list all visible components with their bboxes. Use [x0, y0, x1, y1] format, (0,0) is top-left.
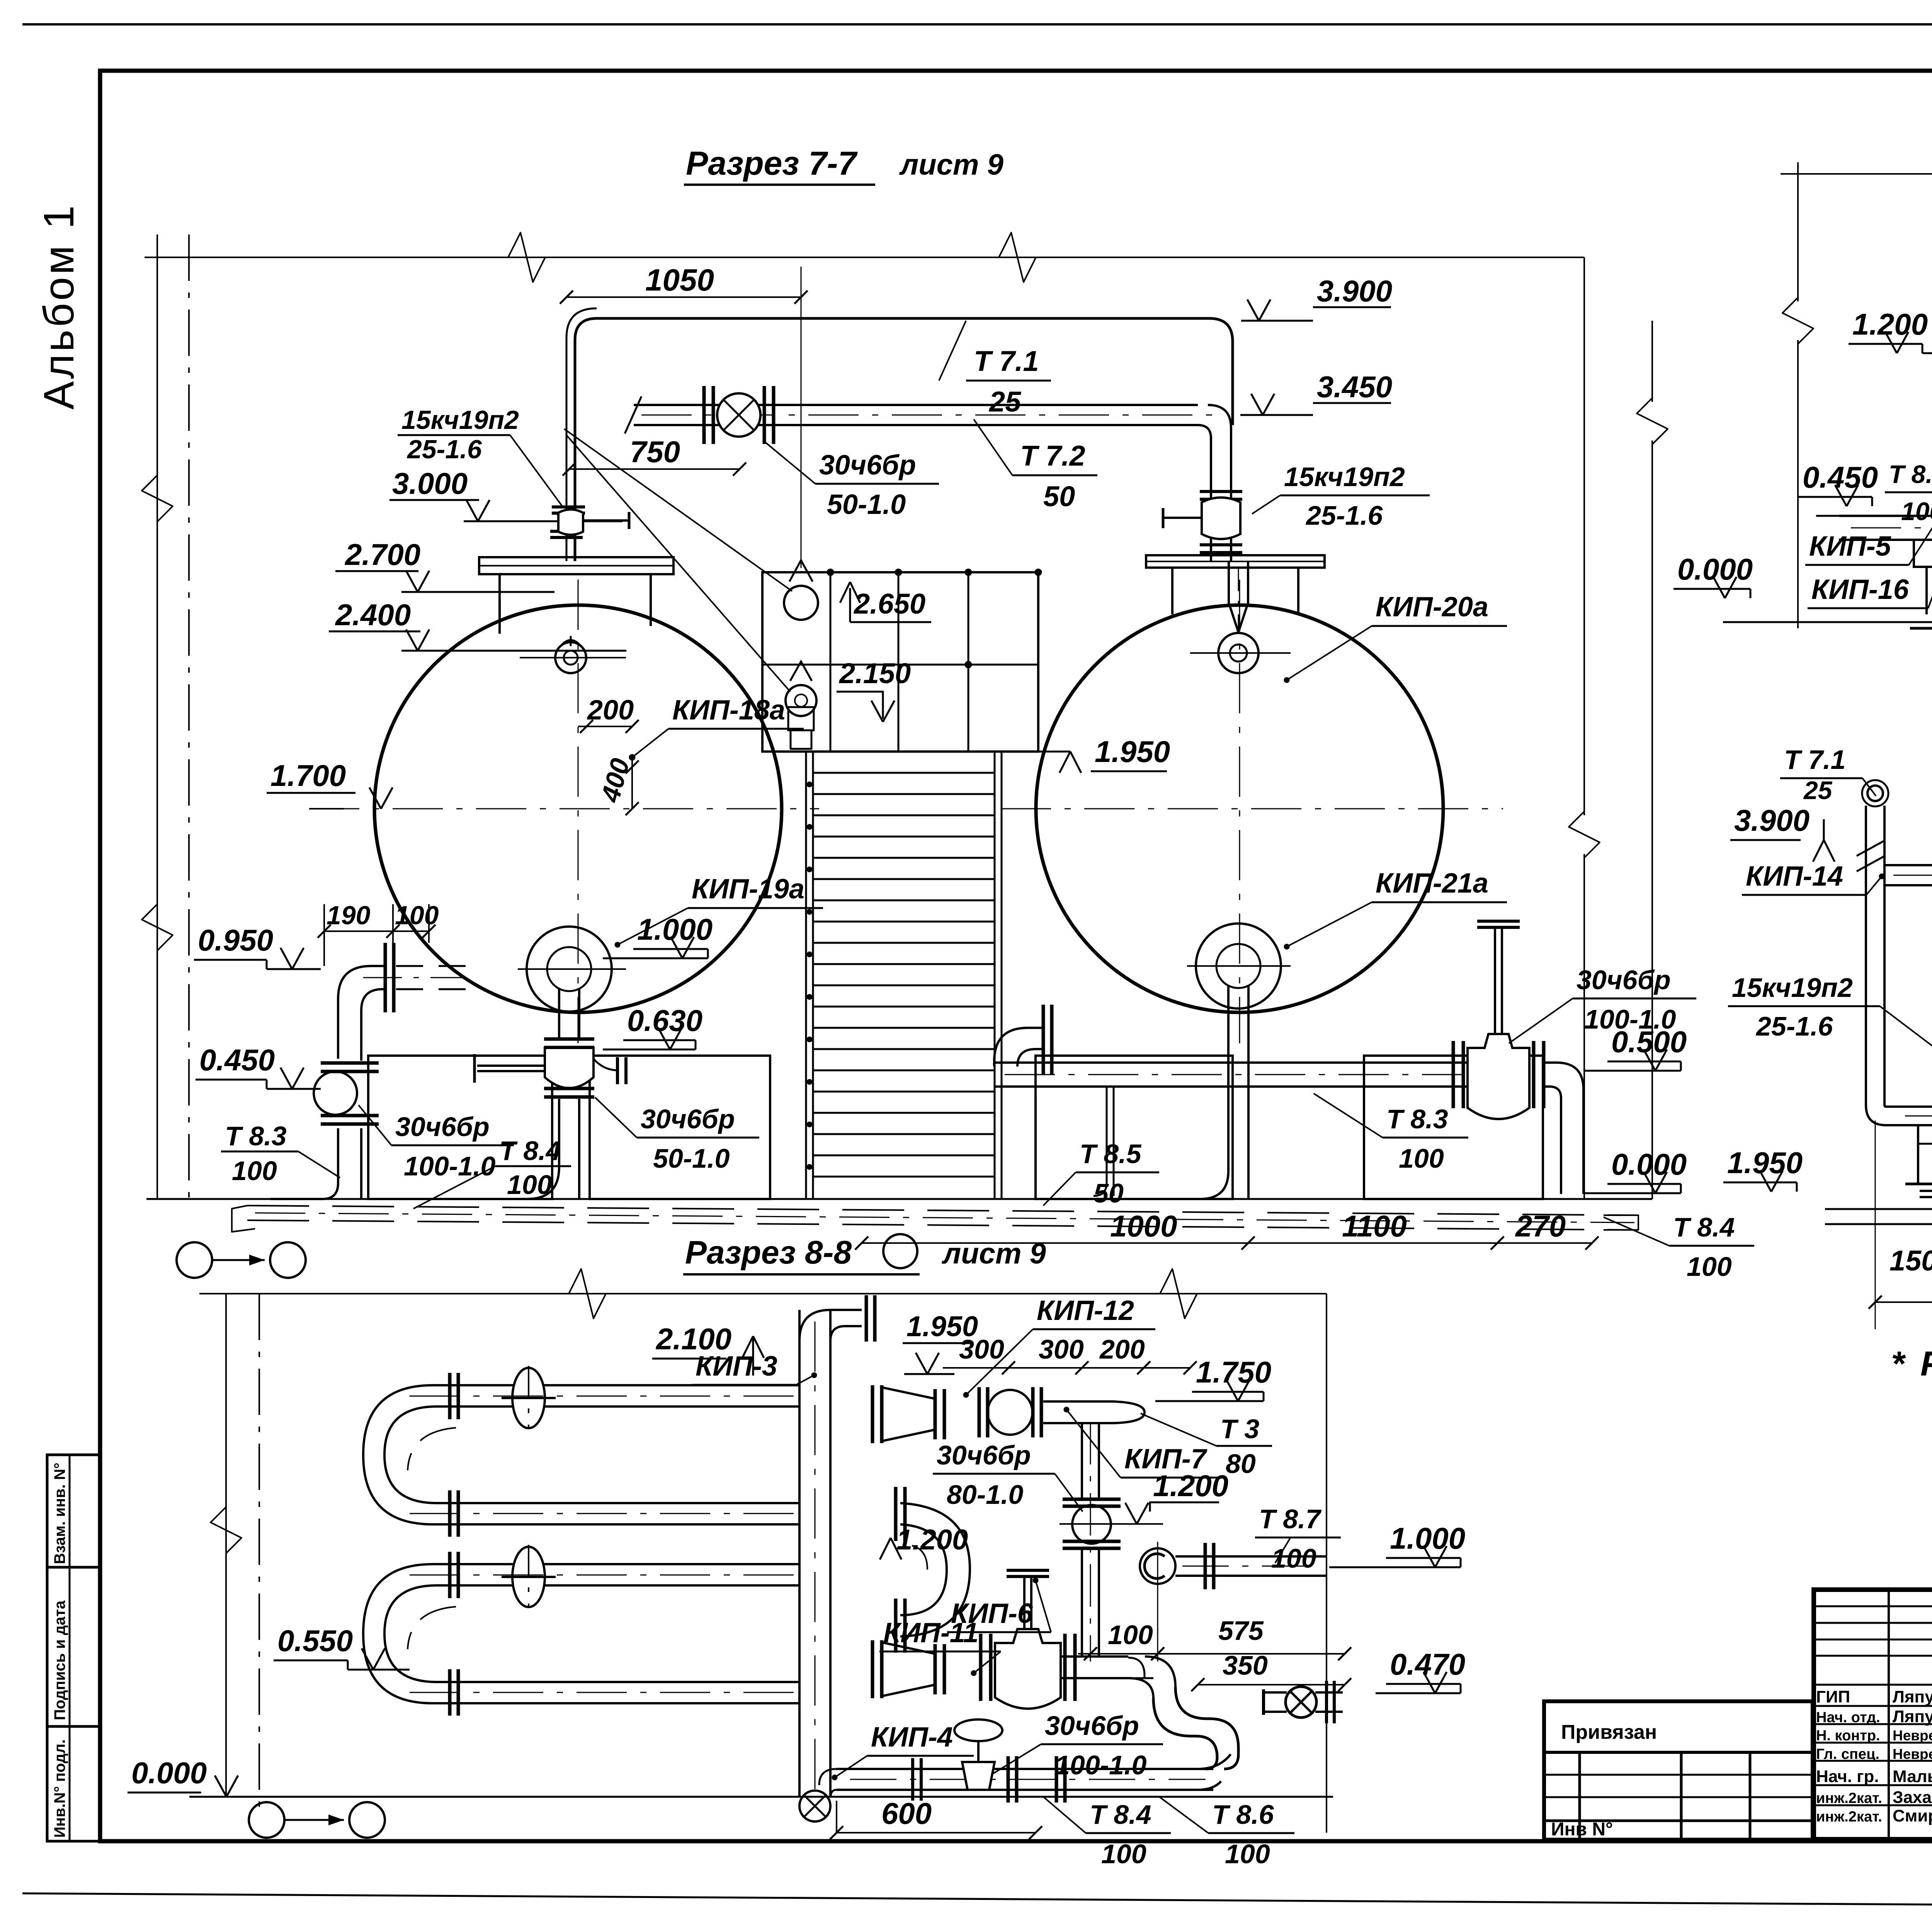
svg-text:190: 190	[327, 901, 371, 930]
extension lines 10-10 bottom	[1875, 1121, 1876, 1329]
pipe 0.450 9-9	[1839, 515, 1932, 517]
svg-text:1.000: 1.000	[1390, 1521, 1465, 1555]
svg-text:Инв.N° подл.: Инв.N° подл.	[51, 1739, 68, 1838]
svg-text:Т 8.5: Т 8.5	[1080, 1139, 1142, 1169]
svg-text:1.950: 1.950	[1727, 1146, 1803, 1180]
svg-text:КИП-16: КИП-16	[1811, 574, 1909, 605]
svg-text:100-1.0: 100-1.0	[1055, 1750, 1146, 1780]
tank 1 bottom nozzle	[527, 927, 612, 1012]
svg-text:Невретдинова: Невретдинова	[1893, 1746, 1932, 1762]
svg-text:КИП-4: КИП-4	[871, 1722, 953, 1753]
svg-text:50: 50	[1043, 480, 1075, 512]
svg-text:Взам. инв. N°: Взам. инв. N°	[51, 1463, 68, 1564]
tank 2 plate legs	[1171, 568, 1173, 614]
pipe 0.500 elbow left	[994, 1028, 1042, 1066]
svg-text:2.700: 2.700	[344, 537, 420, 571]
section 8-8 title underline	[683, 1273, 920, 1276]
tank 2 top nozzle circle	[1218, 633, 1259, 673]
svg-text:750: 750	[630, 435, 680, 469]
U-loop pipe lower	[363, 1564, 800, 1703]
elbow left 10-10	[1866, 1105, 1895, 1125]
svg-text:300: 300	[1039, 1334, 1084, 1364]
svg-text:2.400: 2.400	[335, 598, 411, 632]
view marker pair 8-8	[249, 1802, 284, 1838]
svg-text:ГИП: ГИП	[1816, 1687, 1850, 1706]
page top edge line	[22, 23, 1932, 26]
privyazan table outer	[1544, 1701, 1813, 1840]
dim 750	[569, 468, 740, 470]
svg-text:3.900: 3.900	[1317, 274, 1392, 308]
T vertical pipe 8-8	[1081, 1430, 1083, 1499]
stamp box Inv podl	[47, 1726, 100, 1841]
angle valve 8-8 bottom	[954, 1719, 1002, 1741]
svg-text:100: 100	[1399, 1143, 1444, 1173]
leader to platform valves	[564, 429, 792, 591]
svg-text:3.000: 3.000	[392, 466, 468, 500]
svg-text:200: 200	[1099, 1334, 1145, 1364]
svg-text:Захарова: Захарова	[1893, 1788, 1932, 1807]
svg-text:30ч6бр: 30ч6бр	[937, 1440, 1031, 1470]
tank 2 shell	[1036, 605, 1443, 1012]
svg-text:Гл. спец.: Гл. спец.	[1816, 1746, 1879, 1762]
stamp box Podpis data	[47, 1567, 100, 1726]
svg-text:Разрез 8-8: Разрез 8-8	[685, 1234, 852, 1270]
ball valve 30ch6br 50 on T7.2	[717, 393, 760, 437]
stamp box Vzam inv	[47, 1455, 100, 1567]
pipe 0.630 down to ground	[558, 1099, 560, 1167]
reducer cone lower	[881, 1642, 935, 1696]
svg-text:Смирнова: Смирнова	[1893, 1806, 1932, 1825]
tank 2 support left	[1036, 1056, 1233, 1199]
svg-text:Инв N°: Инв N°	[1551, 1819, 1613, 1840]
extension line at 2073	[801, 267, 802, 568]
svg-text:100: 100	[232, 1156, 277, 1186]
svg-text:1.950: 1.950	[1095, 735, 1170, 769]
pipe 1.000 8-8	[1140, 1548, 1175, 1584]
tank 2 bottom pipe	[1227, 986, 1230, 1171]
tank 1 horizontal centerline	[309, 808, 819, 810]
valve 30ch6br on 0.500	[1468, 1034, 1529, 1119]
svg-text:30ч6бр: 30ч6бр	[641, 1104, 735, 1134]
elbow lower right	[1128, 1656, 1175, 1698]
platform funnel	[788, 707, 814, 730]
tank 2 horizontal centerline	[1001, 808, 1503, 810]
ladder rail right	[994, 752, 996, 1199]
svg-text:Т 7.1: Т 7.1	[974, 345, 1039, 377]
svg-text:Разрез 7-7: Разрез 7-7	[686, 145, 858, 182]
ground line 7-7	[146, 1198, 1652, 1200]
riser valve on tank1	[552, 505, 585, 509]
svg-text:150: 150	[1889, 1245, 1932, 1277]
svg-text:* Размеры для справок: * Размеры для справок	[1891, 1345, 1932, 1383]
pipe lower run	[1060, 1655, 1128, 1658]
svg-text:350: 350	[1223, 1650, 1268, 1680]
svg-text:200: 200	[587, 695, 634, 726]
svg-text:0.000: 0.000	[131, 1756, 207, 1790]
svg-text:100: 100	[1225, 1839, 1270, 1869]
svg-text:Н. контр.: Н. контр.	[1816, 1728, 1880, 1744]
svg-text:1050: 1050	[645, 263, 714, 297]
titleblock row lines left	[1814, 1605, 1932, 1607]
tank 1 shell	[374, 605, 782, 1012]
ground line 9-9	[1723, 621, 1932, 623]
dim 190 100	[324, 930, 429, 932]
svg-text:1.700: 1.700	[270, 759, 346, 793]
svg-text:инж.2кат.: инж.2кат.	[1816, 1809, 1882, 1825]
riser 10-10	[1865, 806, 1867, 1105]
pipe T7.1 inner line	[566, 308, 597, 561]
svg-text:25-1.6: 25-1.6	[1305, 500, 1383, 531]
svg-text:Т 8.4: Т 8.4	[1673, 1212, 1735, 1242]
left line 8-8	[225, 1294, 227, 1797]
tank 1 top plate	[479, 557, 673, 574]
valve circle 8-8 upper	[988, 1390, 1032, 1435]
level mark 3.900	[1241, 320, 1313, 322]
svg-text:15кч19п2: 15кч19п2	[401, 405, 519, 435]
ground line 8-8	[189, 1796, 1333, 1798]
valve T 8-8 lower	[995, 1629, 1061, 1709]
svg-text:600: 600	[881, 1796, 932, 1830]
tank 2 support right	[1364, 1056, 1543, 1199]
svg-text:Нач. отд.: Нач. отд.	[1816, 1709, 1880, 1726]
U-loop pipe upper	[363, 1385, 800, 1524]
svg-text:30ч6бр: 30ч6бр	[395, 1112, 490, 1142]
stamp box Vzam divider	[69, 1455, 71, 1567]
svg-text:Ляпусов: Ляпусов	[1893, 1687, 1932, 1706]
dim row2 10-10	[1875, 1301, 1932, 1303]
svg-text:Т 3: Т 3	[1220, 1414, 1259, 1444]
flange big bend	[894, 1487, 898, 1541]
svg-text:100: 100	[1101, 1839, 1146, 1869]
page bottom edge line	[22, 1893, 1932, 1909]
privyazan rows	[1544, 1774, 1813, 1776]
svg-text:Ляпусов: Ляпусов	[1893, 1707, 1932, 1726]
svg-text:Альбом 1: Альбом 1	[35, 203, 83, 410]
svg-text:лист 9: лист 9	[941, 1237, 1046, 1270]
pipe 0.500 dashes	[1012, 1086, 1461, 1087]
level mark 3.450	[1240, 414, 1313, 416]
svg-text:3.450: 3.450	[1317, 370, 1392, 404]
tank 1 support left	[368, 1056, 552, 1199]
reducer cone upper	[881, 1387, 935, 1441]
tank 1 support right	[590, 1056, 770, 1199]
svg-text:КИП-14: КИП-14	[1746, 861, 1843, 892]
platform grid	[762, 572, 1038, 752]
pipe valve down to ground	[337, 1128, 339, 1183]
svg-text:50-1.0: 50-1.0	[653, 1143, 730, 1173]
svg-text:0.450: 0.450	[199, 1043, 275, 1077]
svg-text:2.650: 2.650	[853, 588, 925, 620]
pipe 2.150 10-10	[1895, 1105, 1932, 1108]
dim line bottom 7-7	[862, 1242, 1592, 1244]
svg-text:80-1.0: 80-1.0	[947, 1480, 1024, 1510]
titleblock col lines	[1888, 1590, 1890, 1839]
svg-text:100: 100	[395, 901, 439, 930]
bottom pipe 8-8	[837, 1768, 1213, 1770]
pipe 0.500 elbow down	[1542, 1063, 1583, 1194]
pipe 2.650 10-10	[1884, 864, 1932, 866]
stamp box Podpis divider	[69, 1567, 71, 1726]
svg-text:Т 8.4: Т 8.4	[1090, 1799, 1151, 1830]
svg-text:0.500: 0.500	[1611, 1025, 1687, 1059]
ladder rail dots	[807, 782, 812, 787]
svg-text:2.150: 2.150	[838, 657, 911, 689]
bottom pipe right elbow	[1198, 1754, 1231, 1790]
pipe 0.500 run	[994, 1061, 1468, 1064]
privyazan top row	[1544, 1751, 1813, 1754]
platform grid dots	[827, 569, 834, 576]
S-pipe right 8-8	[1153, 1687, 1238, 1769]
svg-text:КИП-3: КИП-3	[696, 1351, 777, 1382]
tank 1 top nozzle line	[520, 657, 626, 658]
title block outer	[1814, 1590, 1932, 1839]
pipe T7.1 level 3.900	[575, 318, 1233, 561]
svg-text:30ч6бр: 30ч6бр	[1577, 965, 1671, 995]
vertical pipe bottom circle	[799, 1791, 830, 1821]
pipe T7.2 level 3.450	[634, 404, 1198, 406]
svg-text:0.950: 0.950	[198, 923, 273, 957]
svg-text:50-1.0: 50-1.0	[827, 489, 906, 520]
svg-text:КИП-5: КИП-5	[1809, 531, 1891, 562]
svg-text:КИП-19а: КИП-19а	[692, 874, 804, 905]
svg-text:Т 7.2: Т 7.2	[1020, 440, 1085, 472]
svg-text:1100: 1100	[1342, 1209, 1407, 1243]
top boundary 8-8	[199, 1293, 1327, 1294]
svg-text:1.200: 1.200	[896, 1524, 968, 1556]
svg-text:30ч6бр: 30ч6бр	[1045, 1711, 1139, 1741]
svg-text:80: 80	[1226, 1449, 1256, 1479]
privyazan cols	[1578, 1752, 1581, 1840]
svg-text:0.000: 0.000	[1611, 1147, 1687, 1181]
right extension line 7-7	[1583, 257, 1585, 815]
svg-text:Невретдинова: Невретдинова	[1893, 1728, 1932, 1743]
pipe to T right	[1043, 1400, 1113, 1403]
big bend 8-8	[900, 1503, 970, 1636]
bottom pipe left elbow	[819, 1769, 837, 1797]
valve 0.630 body	[545, 1048, 594, 1088]
valve 0.630 handle	[477, 1065, 545, 1067]
ladder rungs	[813, 772, 995, 774]
underground pipe right end	[1604, 1215, 1638, 1230]
svg-text:100-1.0: 100-1.0	[404, 1151, 495, 1181]
vertical pipe 8-8	[798, 1310, 801, 1797]
level mark 1.200 mid	[880, 1538, 891, 1560]
fitting circle right	[1286, 1687, 1316, 1718]
svg-text:0.470: 0.470	[1390, 1647, 1465, 1681]
tank1 left nozzle flange	[384, 943, 387, 1012]
grid line A vertical	[156, 235, 158, 1199]
svg-text:25-1.6: 25-1.6	[1755, 1011, 1833, 1041]
svg-text:0.630: 0.630	[627, 1003, 702, 1037]
pipe T7.2 centerline	[641, 415, 1217, 416]
pipe from tank1 nozzle down	[558, 989, 560, 1039]
dim line top 9-9	[1781, 173, 1932, 175]
flange above 0.630 valve	[544, 1037, 594, 1041]
small pipe T8.5	[1106, 1087, 1108, 1182]
valve circle 8-8 mid	[1072, 1505, 1111, 1544]
svg-text:Подпись и дата: Подпись и дата	[51, 1600, 68, 1720]
tank 1 vertical centerline	[578, 580, 579, 1043]
view marker pair 7-7	[177, 1242, 212, 1278]
svg-text:лист 9: лист 9	[899, 148, 1003, 181]
svg-text:0.550: 0.550	[277, 1624, 353, 1658]
svg-text:Т 8.7: Т 8.7	[1889, 460, 1932, 488]
svg-text:1.200: 1.200	[1852, 307, 1928, 341]
svg-text:1.750: 1.750	[1196, 1355, 1271, 1389]
right extension line far	[1651, 321, 1653, 402]
svg-text:30ч6бр: 30ч6бр	[819, 450, 916, 481]
svg-text:Нач. гр.: Нач. гр.	[1816, 1767, 1879, 1786]
svg-text:100: 100	[1687, 1252, 1732, 1282]
vertical pipe top elbow	[799, 1310, 862, 1341]
stamp box Inv divider	[69, 1726, 71, 1841]
tank2 left nozzle flange	[1042, 1005, 1045, 1074]
underground pipe left cap	[232, 1206, 255, 1232]
left extension 9-9	[1797, 162, 1799, 301]
support left 10-10	[1918, 1125, 1932, 1184]
top boundary line 7-7	[145, 257, 1584, 258]
pipe 0.950 elbow	[338, 966, 384, 1059]
svg-text:0.450: 0.450	[1803, 460, 1878, 494]
svg-text:КИП-12: КИП-12	[1037, 1295, 1134, 1326]
support 9-9	[1914, 540, 1932, 567]
svg-text:25-1.6: 25-1.6	[406, 435, 482, 464]
dim 400 vertical	[631, 757, 633, 809]
tank 2 dip tube	[1229, 561, 1248, 632]
svg-text:25: 25	[1803, 776, 1833, 804]
svg-text:КИП-21а: КИП-21а	[1376, 868, 1488, 899]
svg-text:50: 50	[1094, 1178, 1124, 1208]
svg-text:15кч19п2: 15кч19п2	[1732, 973, 1853, 1003]
platform valve lower	[786, 685, 816, 716]
svg-text:25: 25	[988, 386, 1022, 418]
right boundary 8-8	[1326, 1294, 1327, 1833]
tank 2 bottom nozzle	[1196, 923, 1281, 1009]
tank 1 plate legs	[498, 574, 501, 634]
svg-text:300: 300	[959, 1334, 1004, 1364]
dim 200 at KIP-18a	[578, 726, 632, 727]
dim line 1050	[566, 296, 801, 298]
svg-text:КИП-18а: КИП-18а	[672, 695, 785, 726]
platform valve upper	[784, 586, 818, 620]
svg-text:100: 100	[1108, 1620, 1153, 1650]
svg-text:1000: 1000	[1110, 1209, 1177, 1243]
svg-text:Т 7.1: Т 7.1	[1784, 745, 1846, 775]
section 7-7 title underline	[684, 184, 875, 186]
tank 2 vertical centerline	[1239, 580, 1240, 1043]
axis line vertical dashdot	[188, 235, 190, 1199]
svg-text:КИП-20а: КИП-20а	[1376, 592, 1488, 622]
svg-text:575: 575	[1218, 1616, 1264, 1646]
svg-text:1.200: 1.200	[1153, 1469, 1228, 1503]
svg-text:Привязан: Привязан	[1561, 1721, 1657, 1743]
tank 2 top plate	[1146, 555, 1325, 568]
svg-text:270: 270	[1515, 1209, 1566, 1243]
svg-text:Т 8.3: Т 8.3	[225, 1121, 287, 1151]
ladder rail left	[805, 752, 807, 1199]
svg-text:1.000: 1.000	[637, 912, 713, 946]
svg-text:КИП-11: КИП-11	[883, 1617, 979, 1648]
tank 2 riser valve	[1200, 490, 1242, 493]
svg-text:Мальгина: Мальгина	[1893, 1767, 1932, 1786]
axis line 8-8	[259, 1294, 260, 1816]
tank 1 top nozzle circle	[555, 642, 586, 673]
svg-text:100: 100	[1901, 497, 1932, 526]
svg-text:инж.2кат.: инж.2кат.	[1816, 1790, 1882, 1806]
ground line 1.950 10-10	[1825, 1208, 1932, 1210]
pipe T7.2 break end	[625, 396, 641, 434]
svg-text:Т 8.7: Т 8.7	[1259, 1504, 1322, 1534]
svg-text:Т 8.3: Т 8.3	[1386, 1104, 1448, 1134]
svg-text:Т 8.6: Т 8.6	[1212, 1799, 1274, 1830]
underground pipe dashed	[247, 1206, 1638, 1215]
valve circle left	[314, 1071, 357, 1115]
svg-text:3.900: 3.900	[1734, 803, 1810, 837]
svg-text:15кч19п2: 15кч19п2	[1284, 462, 1405, 492]
